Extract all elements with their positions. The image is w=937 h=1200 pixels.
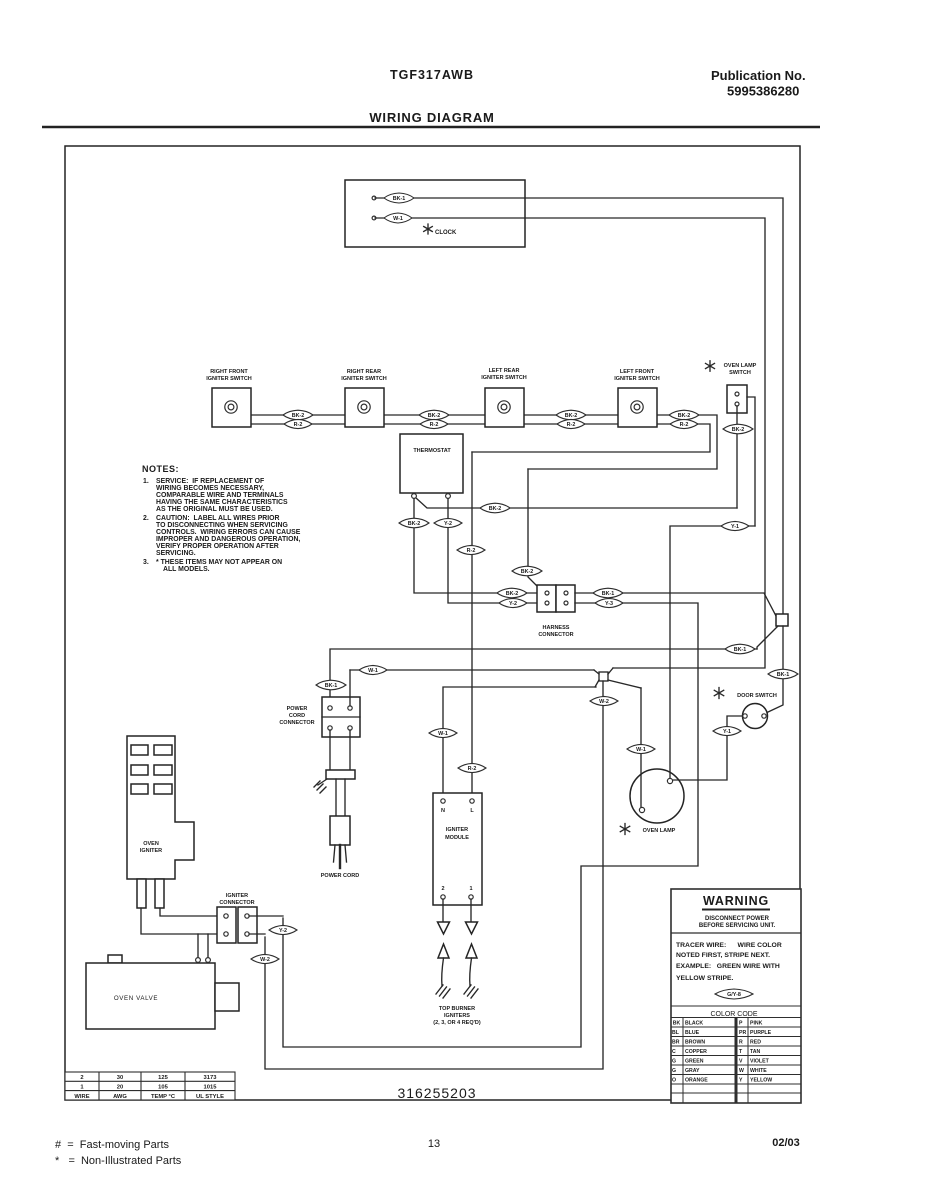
- svg-text:IGNITER SWITCH: IGNITER SWITCH: [614, 376, 660, 382]
- lens BK-1 run right end: [725, 644, 755, 654]
- svg-text:BK-2: BK-2: [489, 506, 502, 512]
- svg-text:Y-2: Y-2: [509, 601, 517, 607]
- svg-text:BK-1: BK-1: [602, 591, 615, 597]
- svg-text:G/Y-8: G/Y-8: [727, 992, 741, 998]
- svg-text:BK-1: BK-1: [734, 647, 747, 653]
- wire W-1 from splice to oven lamp: [640, 688, 642, 807]
- lens R-2 pair4: [670, 419, 698, 428]
- lens R-2 pair1: [284, 419, 312, 428]
- svg-text:IGNITER SWITCH: IGNITER SWITCH: [341, 376, 387, 382]
- svg-text:IGNITERS: IGNITERS: [444, 1013, 470, 1019]
- lens BK-2 above harness: [512, 566, 542, 576]
- svg-text:VERIFY PROPER OPERATION AFTER: VERIFY PROPER OPERATION AFTER: [156, 543, 279, 550]
- thermostat terminal right: [446, 494, 451, 499]
- lens BK-2 pair1: [283, 410, 313, 420]
- svg-text:IGNITER SWITCH: IGNITER SWITCH: [481, 375, 527, 381]
- svg-text:BL: BL: [672, 1030, 680, 1036]
- svg-text:WHITE: WHITE: [750, 1068, 767, 1074]
- svg-text:BK-2: BK-2: [678, 413, 691, 419]
- plug prongs: [334, 845, 347, 868]
- svg-text:HAVING THE SAME CHARACTERISTIC: HAVING THE SAME CHARACTERISTICS: [156, 499, 288, 506]
- lens W-1 power cord: [359, 665, 387, 674]
- wire BK-1 harness right to pin connector: [575, 593, 776, 616]
- wire to top burner igniter 2: [442, 899, 444, 921]
- lens Y-3 harness right: [595, 598, 623, 607]
- svg-text:02/03: 02/03: [772, 1137, 800, 1149]
- oven lamp body: [630, 769, 684, 823]
- svg-text:1.: 1.: [143, 478, 149, 485]
- label lens BK-1 at clock: [384, 193, 414, 203]
- wire Y-1 door switch to oven lamp: [671, 716, 742, 780]
- igniter module terminal L: [470, 799, 474, 803]
- lens Y-1 on run: [721, 521, 749, 530]
- wire Y-1 lamp switch right down: [747, 397, 755, 526]
- burner electrode 1: [464, 985, 478, 998]
- igniter connector left half: [217, 907, 236, 943]
- lens W-1 oven lamp: [627, 744, 655, 753]
- svg-text:DOOR SWITCH: DOOR SWITCH: [737, 693, 777, 699]
- wire Y-3 harness right long run to igniter connector: [283, 603, 698, 1047]
- svg-text:CONNECTOR: CONNECTOR: [219, 900, 254, 906]
- svg-text:1: 1: [469, 886, 472, 892]
- thermostat box: [400, 434, 463, 493]
- svg-text:CORD: CORD: [289, 713, 305, 719]
- wires connector to strain relief: [329, 730, 331, 770]
- chassis ground: [314, 779, 327, 793]
- svg-text:BK-2: BK-2: [732, 427, 745, 433]
- svg-text:BLACK: BLACK: [685, 1021, 703, 1027]
- svg-text:CONNECTOR: CONNECTOR: [279, 720, 314, 726]
- svg-text:RIGHT FRONT: RIGHT FRONT: [210, 369, 248, 375]
- lens R-2 pair3: [557, 419, 585, 428]
- svg-text:OVEN VALVE: OVEN VALVE: [114, 995, 158, 1002]
- svg-text:NOTED FIRST, STRIPE NEXT.: NOTED FIRST, STRIPE NEXT.: [676, 952, 770, 959]
- svg-text:AWG: AWG: [113, 1094, 127, 1100]
- svg-text:BROWN: BROWN: [685, 1040, 705, 1046]
- wire top row BK-2 chain: [251, 414, 345, 416]
- door switch asterisk: [714, 688, 723, 699]
- svg-text:G: G: [672, 1068, 676, 1074]
- svg-text:LEFT REAR: LEFT REAR: [489, 368, 520, 374]
- oven lamp terminal upper: [667, 778, 672, 783]
- svg-text:RIGHT REAR: RIGHT REAR: [347, 369, 381, 375]
- svg-text:BK-2: BK-2: [292, 413, 305, 419]
- svg-text:W-1: W-1: [636, 747, 646, 753]
- svg-text:BK: BK: [673, 1021, 681, 1027]
- svg-text:POWER: POWER: [287, 706, 308, 712]
- lens R-2 lower: [458, 763, 486, 772]
- wire W-1 igniter module N to splice: [443, 687, 596, 799]
- svg-text:SERVICE: IF REPLACEMENT OF: SERVICE: IF REPLACEMENT OF: [156, 478, 264, 485]
- svg-text:R: R: [739, 1040, 743, 1046]
- oven valve terminals: [196, 958, 201, 963]
- igniter prong right: [155, 879, 164, 908]
- harness pins: [545, 591, 549, 595]
- svg-text:2: 2: [80, 1075, 83, 1081]
- harness connector right half: [556, 585, 575, 612]
- svg-text:GREEN: GREEN: [685, 1059, 704, 1065]
- igniter prong left: [137, 879, 146, 908]
- wire Y-1 from lamp switch run down to oven lamp: [670, 526, 755, 778]
- pin connector on BK-1 line: [776, 614, 788, 626]
- svg-text:Y-1: Y-1: [723, 729, 731, 735]
- header rule: [42, 126, 820, 128]
- svg-text:IGNITER: IGNITER: [226, 893, 248, 899]
- svg-text:COMPARABLE WIRE AND TERMINALS: COMPARABLE WIRE AND TERMINALS: [156, 492, 284, 499]
- svg-text:# = Fast-moving Parts: # = Fast-moving Parts: [55, 1139, 170, 1151]
- svg-text:IGNITER SWITCH: IGNITER SWITCH: [206, 376, 252, 382]
- svg-text:CAUTION: LABEL ALL WIRES PRIO: CAUTION: LABEL ALL WIRES PRIOR: [156, 515, 280, 522]
- wire R-2 long vertical to igniter module L: [471, 452, 473, 799]
- wire BK-2 lamp switch down to thermostat run: [736, 406, 738, 508]
- lens BK-1 above door switch: [768, 669, 798, 679]
- svg-text:TOP BURNER: TOP BURNER: [439, 1006, 475, 1012]
- svg-text:AS THE ORIGINAL MUST BE USED.: AS THE ORIGINAL MUST BE USED.: [156, 506, 273, 513]
- oven lamp asterisk: [620, 824, 629, 835]
- wire W-1 clock to right side: [375, 218, 765, 668]
- lens BK-2 pair2: [419, 410, 449, 420]
- svg-text:SWITCH: SWITCH: [729, 370, 751, 376]
- svg-text:DISCONNECT POWER: DISCONNECT POWER: [705, 916, 770, 922]
- oven igniter body: [127, 736, 194, 879]
- svg-text:PR: PR: [739, 1030, 746, 1036]
- svg-text:R-2: R-2: [467, 548, 476, 554]
- svg-text:O: O: [672, 1078, 676, 1084]
- svg-text:GRAY: GRAY: [685, 1068, 700, 1074]
- wire Y-2 thermostat right down to harness: [448, 499, 541, 603]
- svg-text:125: 125: [158, 1075, 168, 1081]
- svg-text:ORANGE: ORANGE: [685, 1078, 708, 1084]
- svg-text:TGF317AWB: TGF317AWB: [390, 68, 474, 82]
- power cord connector box: [322, 697, 360, 737]
- wire W-1 run power cord connector to splice: [350, 669, 594, 671]
- svg-text:BK-1: BK-1: [325, 683, 338, 689]
- warning box: [671, 889, 801, 1103]
- svg-text:VIOLET: VIOLET: [750, 1059, 770, 1065]
- oven lamp switch asterisk: [706, 361, 715, 371]
- svg-text:WIRING BECOMES NECESSARY,: WIRING BECOMES NECESSARY,: [156, 485, 264, 492]
- igniter switch right front: [206, 369, 252, 427]
- strain relief bar: [326, 770, 355, 779]
- lens R-2 upper: [457, 545, 485, 554]
- harness connector left half: [537, 585, 556, 612]
- arrow up 1 with lead: [466, 944, 477, 958]
- svg-text:CONNECTOR: CONNECTOR: [538, 632, 573, 638]
- svg-text:TEMP °C: TEMP °C: [151, 1094, 176, 1100]
- svg-text:5995386280: 5995386280: [727, 84, 799, 99]
- oven lamp terminal lower: [639, 807, 644, 812]
- door switch terminals: [743, 714, 747, 718]
- oven valve body: [86, 963, 215, 1029]
- svg-text:13: 13: [428, 1138, 440, 1150]
- wire BK-1 clock to right side: [375, 198, 783, 614]
- svg-text:R-2: R-2: [680, 422, 689, 428]
- svg-text:W-1: W-1: [368, 668, 378, 674]
- igniter module terminal N: [441, 799, 445, 803]
- svg-text:MODULE: MODULE: [445, 835, 469, 841]
- svg-text:YELLOW: YELLOW: [750, 1078, 772, 1084]
- svg-text:BK-2: BK-2: [428, 413, 441, 419]
- wire bottom row R-2 chain: [251, 423, 345, 425]
- wire BK-2 run thermostat to lamp switch: [416, 498, 737, 508]
- svg-text:2.: 2.: [143, 515, 149, 522]
- svg-text:WARNING: WARNING: [703, 894, 769, 908]
- oven lamp switch box: [727, 385, 747, 413]
- lens Y-1 door switch: [713, 726, 741, 735]
- valve riser 1: [197, 934, 199, 957]
- svg-text:BK-1: BK-1: [393, 196, 406, 202]
- svg-text:W-2: W-2: [599, 699, 609, 705]
- svg-text:BK-2: BK-2: [506, 591, 519, 597]
- label lens W-1 at clock: [384, 213, 412, 223]
- door switch body: [743, 704, 768, 729]
- arrow down 1: [466, 922, 478, 934]
- svg-text:C: C: [672, 1049, 676, 1055]
- oven lamp switch terminals: [735, 392, 739, 396]
- svg-text:* THESE ITEMS MAY NOT APPEAR O: * THESE ITEMS MAY NOT APPEAR ON: [156, 559, 282, 566]
- wire spec table: [65, 1072, 235, 1100]
- svg-text:30: 30: [117, 1075, 123, 1081]
- svg-text:CONTROLS. WIRING ERRORS CAN C: CONTROLS. WIRING ERRORS CAN CAUSE: [156, 529, 301, 536]
- svg-text:R-2: R-2: [294, 422, 303, 428]
- svg-text:3.: 3.: [143, 559, 149, 566]
- notes block: [142, 464, 301, 573]
- svg-text:G: G: [672, 1059, 676, 1065]
- wire BK-1 long run to power cord connector: [330, 649, 757, 706]
- tracer wire paragraph: [676, 942, 782, 982]
- igniter connector pins: [224, 914, 228, 918]
- svg-text:WIRE: WIRE: [74, 1094, 89, 1100]
- svg-text:W-2: W-2: [260, 957, 270, 963]
- svg-text:BEFORE SERVICING UNIT.: BEFORE SERVICING UNIT.: [699, 923, 776, 929]
- lens Y-2 igniter connector: [269, 925, 297, 934]
- svg-text:PURPLE: PURPLE: [750, 1030, 772, 1036]
- svg-text:Y: Y: [739, 1078, 743, 1084]
- color code table top line: [671, 1005, 801, 1007]
- lens BK-2 thermostat drop: [399, 518, 429, 528]
- svg-text:SERVICING.: SERVICING.: [156, 550, 196, 557]
- svg-text:20: 20: [117, 1085, 123, 1091]
- arrow down 2: [438, 922, 450, 934]
- igniter connector right half: [238, 907, 257, 943]
- svg-text:TAN: TAN: [750, 1049, 761, 1055]
- svg-text:Publication No.: Publication No.: [711, 68, 806, 83]
- lens Y-2 thermostat drop: [434, 518, 462, 527]
- svg-text:2: 2: [441, 886, 444, 892]
- igniter switch right rear: [341, 369, 387, 427]
- svg-text:IGNITER: IGNITER: [140, 848, 162, 854]
- oven valve top bump: [108, 955, 122, 963]
- lens BK-1 run left end: [316, 680, 346, 690]
- svg-text:OVEN: OVEN: [143, 841, 159, 847]
- svg-text:BK-1: BK-1: [777, 672, 790, 678]
- svg-text:TO DISCONNECTING WHEN SERVICIN: TO DISCONNECTING WHEN SERVICING: [156, 522, 288, 529]
- svg-text:THERMOSTAT: THERMOSTAT: [413, 448, 451, 454]
- burner electrode 2: [436, 985, 450, 998]
- svg-text:* = Non-Illustrated Parts: * = Non-Illustrated Parts: [55, 1155, 182, 1167]
- lens BK-2 pair3: [556, 410, 586, 420]
- svg-text:Y-2: Y-2: [279, 928, 287, 934]
- clock box: [345, 180, 525, 247]
- clock asterisk: [424, 224, 433, 234]
- svg-text:Y-2: Y-2: [444, 521, 452, 527]
- svg-text:316255203: 316255203: [397, 1085, 476, 1101]
- svg-text:R-2: R-2: [567, 422, 576, 428]
- clock terminal BK-1: [372, 196, 376, 200]
- svg-text:R-2: R-2: [468, 766, 477, 772]
- svg-text:N: N: [441, 808, 445, 814]
- splice connector (bowtie) on W line: [594, 668, 641, 688]
- lens BK-2 on run: [480, 503, 510, 513]
- svg-text:Y-1: Y-1: [731, 524, 739, 530]
- igniter module box: [433, 793, 482, 905]
- svg-text:Y-3: Y-3: [605, 601, 613, 607]
- lens Y-2 harness left: [499, 598, 527, 607]
- wire to top burner igniter 1: [470, 899, 472, 921]
- svg-text:CLOCK: CLOCK: [435, 230, 457, 236]
- svg-text:LEFT FRONT: LEFT FRONT: [620, 369, 655, 375]
- lens W-2 top: [590, 696, 618, 705]
- svg-text:V: V: [739, 1059, 743, 1065]
- svg-text:UL STYLE: UL STYLE: [196, 1094, 224, 1100]
- svg-text:BK-2: BK-2: [565, 413, 578, 419]
- lens BK-1 harness right: [593, 588, 623, 598]
- clock terminal W-1: [372, 216, 376, 220]
- svg-text:P: P: [739, 1021, 743, 1027]
- svg-text:HARNESS: HARNESS: [543, 625, 570, 631]
- svg-text:WIRING DIAGRAM: WIRING DIAGRAM: [369, 110, 494, 125]
- igniter vent slots: [131, 745, 172, 794]
- valve riser 2: [207, 934, 209, 957]
- svg-text:BLUE: BLUE: [685, 1030, 700, 1036]
- power cord connector pins: [328, 706, 332, 710]
- color code rows: [672, 1021, 772, 1084]
- svg-text:POWER CORD: POWER CORD: [321, 873, 360, 879]
- lens BK-2 lamp switch: [723, 424, 753, 434]
- svg-text:BR: BR: [672, 1040, 680, 1046]
- svg-text:COPPER: COPPER: [685, 1049, 707, 1055]
- wire Y-2 igniter connector to run: [249, 915, 283, 917]
- lens W-2 igniter connector: [251, 954, 279, 963]
- lens G/Y-8 example: [715, 989, 753, 999]
- wire BK-2 from switch chain down to harness: [528, 469, 541, 590]
- svg-text:TRACER WIRE: WIRE COLOR: TRACER WIRE: WIRE COLOR: [676, 942, 782, 949]
- wire BK-1 pin connector down to door switch: [766, 626, 783, 713]
- power cord cable: [335, 779, 337, 816]
- wire W-2 from splice down long run to igniter connector: [265, 681, 603, 1069]
- lens W-1 igniter module: [429, 728, 457, 737]
- wire W-2 igniter connector to run: [249, 933, 265, 935]
- svg-text:EXAMPLE: GREEN WIRE WITH: EXAMPLE: GREEN WIRE WITH: [676, 963, 780, 970]
- svg-text:W-1: W-1: [393, 216, 403, 222]
- arrow up 2 with lead: [438, 944, 449, 958]
- svg-text:W-1: W-1: [438, 731, 448, 737]
- lens R-2 pair2: [420, 419, 448, 428]
- svg-text:3173: 3173: [204, 1075, 218, 1081]
- color code table grid: [671, 1018, 801, 1104]
- svg-text:R-2: R-2: [430, 422, 439, 428]
- svg-text:OVEN LAMP: OVEN LAMP: [724, 363, 757, 369]
- oven valve side box: [215, 983, 239, 1011]
- svg-text:BK-2: BK-2: [408, 521, 421, 527]
- svg-text:105: 105: [158, 1085, 168, 1091]
- thermostat terminal left: [412, 494, 417, 499]
- svg-text:PINK: PINK: [750, 1021, 763, 1027]
- wire right prong to igniter connector: [160, 908, 223, 916]
- svg-text:COLOR CODE: COLOR CODE: [710, 1011, 757, 1018]
- lens BK-2 harness left: [497, 588, 527, 598]
- svg-text:IMPROPER AND DANGEROUS OPERATI: IMPROPER AND DANGEROUS OPERATION,: [156, 536, 300, 543]
- svg-text:1015: 1015: [204, 1085, 218, 1091]
- svg-text:BK-2: BK-2: [521, 569, 534, 575]
- svg-text:OVEN LAMP: OVEN LAMP: [643, 828, 676, 834]
- warning divider: [671, 932, 801, 934]
- svg-text:(2, 3, OR 4 REQ'D): (2, 3, OR 4 REQ'D): [433, 1020, 481, 1026]
- igniter switch left rear: [481, 368, 527, 427]
- wire BK-2 thermostat left down to harness: [414, 499, 541, 593]
- svg-text:NOTES:: NOTES:: [142, 464, 179, 474]
- svg-text:ALL MODELS.: ALL MODELS.: [163, 566, 210, 573]
- wire left prong to connector and valve: [141, 908, 223, 934]
- svg-text:RED: RED: [750, 1040, 761, 1046]
- igniter switch left front: [614, 369, 660, 427]
- wire BK-1 out of pin connector to long run: [757, 626, 778, 649]
- svg-text:IGNITER: IGNITER: [446, 827, 468, 833]
- power cord plug: [330, 816, 350, 845]
- lens BK-2 pair4: [669, 410, 699, 420]
- svg-text:W: W: [739, 1068, 744, 1074]
- svg-text:YELLOW STRIPE.: YELLOW STRIPE.: [676, 975, 734, 982]
